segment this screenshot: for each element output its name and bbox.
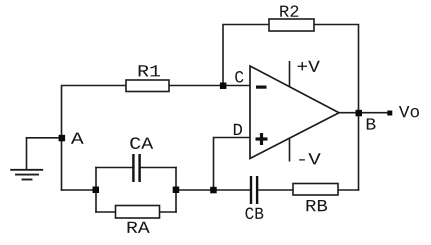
node B [356,110,363,117]
label C [235,71,243,83]
wire [95,168,97,213]
label R2 [280,5,298,16]
label D [234,124,242,135]
label A [71,133,84,144]
wire [214,138,251,191]
ground [11,170,42,180]
wire [160,211,177,213]
label CA [130,137,153,149]
wire [223,25,269,86]
node D junction [210,187,217,194]
label -V [299,153,320,164]
capacitor CA [133,154,139,182]
label +V [298,61,320,72]
wire [176,189,214,191]
wire [214,189,251,191]
wire [258,189,293,191]
resistor RA [116,206,160,219]
wire [314,25,359,191]
label CB [245,208,263,220]
node (right of CA/RA block) [173,187,180,194]
wire [26,138,28,169]
label B [367,118,376,129]
wire [27,137,62,139]
resistor R1 [126,80,169,92]
op-amp U1 [250,61,339,162]
node A [59,135,66,142]
label RA [128,222,150,233]
wire [62,86,127,191]
resistor RB [293,184,338,196]
node (left of CA/RA block) [93,187,100,194]
resistor R2 [269,19,314,31]
wire [175,168,177,213]
label RB [307,200,328,211]
wire [141,167,177,169]
wire [62,189,97,191]
terminal Vo [387,111,392,116]
wire [96,211,116,213]
capacitor CB [251,176,257,204]
label R1 [139,65,160,76]
node C [220,83,227,90]
wire [169,85,250,87]
wire [96,167,133,169]
wire [339,112,390,114]
label Vo [399,106,419,117]
wire [338,189,359,191]
